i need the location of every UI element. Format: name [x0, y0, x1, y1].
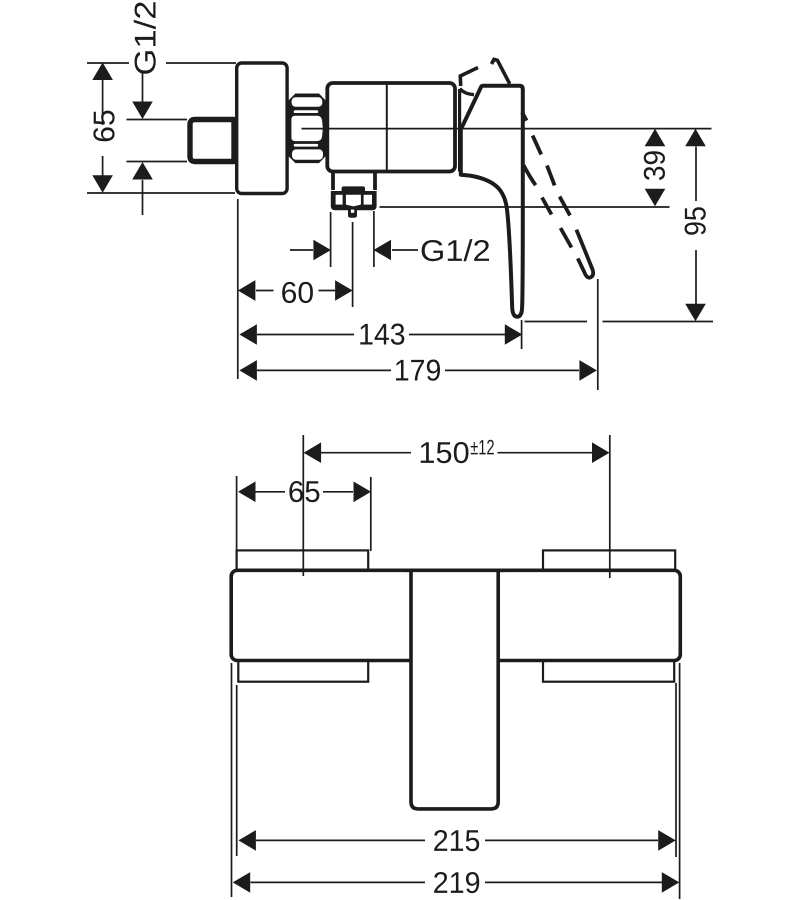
arrow: dim 150 left [304, 442, 322, 463]
G1/2 horizontal row y=250 [290, 249, 418, 251]
hex nut [288, 94, 325, 164]
arrow: dim 39 down [645, 189, 666, 207]
arrow: dim 60 left [238, 280, 256, 301]
G1/2 vertical arrow lines [142, 73, 144, 215]
arrow: outlet G1/2 right [313, 240, 331, 261]
arrowheads bottom view [233, 442, 680, 892]
square top/bottom extensions [127, 120, 188, 162]
extension line: wall face (left end of 60/143/179) [237, 199, 239, 379]
thin lines bottom view [232, 435, 680, 899]
label G1/2 (wall thread, rotated) [134, 2, 156, 74]
wall plate [237, 63, 287, 194]
arrow: dim 215 left [238, 830, 256, 851]
dash: outer edge 1 [522, 112, 527, 120]
arrow: dim 95 down [685, 304, 706, 322]
arrow: dim 143 left [239, 324, 257, 345]
top tabs [237, 550, 369, 573]
dash: outer edge 4 [560, 197, 570, 216]
150 row [321, 452, 592, 454]
label ±12 tolerance [471, 440, 494, 455]
dash: inner edge 1 (curved, leaves solid lever) [524, 165, 536, 185]
outlet bottom extension [380, 206, 670, 208]
label 150 [421, 442, 469, 463]
main body [327, 83, 455, 172]
extension line: outlet axis (right end of 60) [352, 222, 354, 307]
label 219 [434, 872, 479, 893]
arrow: G1/2 inlet down [132, 102, 153, 120]
main bar [231, 570, 680, 660]
dash: outer edge 2 [533, 136, 542, 155]
arrow: dim 219 right [662, 872, 680, 893]
65 row [256, 491, 354, 493]
extension line: outlet right edge [373, 211, 375, 267]
label 179 [396, 360, 440, 381]
label 95 (rotated) [685, 207, 706, 234]
texts bottom view [289, 440, 493, 893]
handle tip extension line y=321.5 [525, 321, 714, 323]
extension line: open lever tip (right end of 179) [597, 279, 599, 390]
dash: inner edge 2 [542, 198, 552, 215]
dash: outer edge 3 [547, 166, 555, 186]
arrow: dim 179 right [579, 360, 597, 381]
arrow: dim 60 right [335, 280, 353, 301]
open-position lever (dashed outline) [522, 112, 593, 277]
thin lines: extensions & centerlines [87, 63, 713, 390]
dash: outer edge 5 + rounded lever end [576, 230, 593, 278]
143 row y=334.5 [257, 334, 505, 336]
arrow: dim 219 left [233, 872, 251, 893]
arrow: outlet G1/2 left [374, 240, 392, 261]
outlet housing below body [331, 171, 377, 218]
body cartridge line vertical [386, 85, 388, 170]
label 65 (flange width) [289, 481, 319, 502]
179 row y=370.4 [257, 369, 579, 371]
219 row [251, 881, 663, 883]
extension line: solid lever tip (right end of 143) [521, 320, 523, 349]
raised-handle dashes (top) [460, 68, 478, 87]
bar top edge across column [405, 568, 505, 572]
label 65 (rotated) [93, 111, 114, 142]
arrow: G1/2 inlet up [132, 162, 153, 180]
65 bottom extension [87, 192, 235, 194]
60 row y=290.5 [256, 290, 335, 292]
arrow: dim 143 right [505, 324, 523, 345]
65 dim line pieces [102, 80, 104, 176]
arrow: dim 150 right [592, 442, 610, 463]
texts top view [93, 2, 705, 381]
extension line: outlet left edge [330, 212, 332, 267]
lever handle (solid, closed position) [461, 86, 523, 317]
95 dim line pieces [695, 147, 697, 305]
arrow: dim 65 (flange) left [238, 482, 256, 503]
centerline [302, 128, 712, 130]
215 row [256, 839, 658, 841]
arrow: dim 39 up [645, 129, 666, 147]
center column [411, 569, 498, 809]
top extension line y=63 [87, 62, 236, 64]
label 39 (rotated) [644, 151, 665, 180]
arrow: dim 65 (flange) right [354, 482, 372, 503]
arrowheads top view [92, 63, 706, 381]
arrow: dim 179 left [239, 360, 257, 381]
handle sleeve line + dome arc [458, 89, 461, 172]
arrow: dim 65 down [92, 175, 113, 193]
bottom tabs [238, 659, 368, 682]
label 215 [434, 830, 479, 851]
arrow: dim 95 up [685, 129, 706, 147]
dash: inner edge 3 [561, 228, 572, 248]
label 60 [282, 282, 313, 303]
square wall inlet [190, 120, 234, 162]
arrow: dim 215 right [658, 830, 676, 851]
label 143 [360, 324, 404, 345]
label G1/2 (outlet thread) [422, 239, 489, 261]
arrow: dim 65 up [92, 63, 113, 81]
